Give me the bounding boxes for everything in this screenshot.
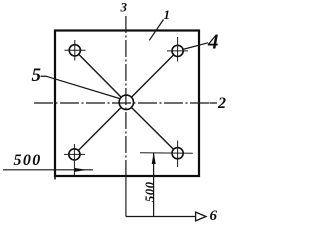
axis 6 horizontal line	[126, 216, 196, 218]
wire TL crosshair	[65, 49, 86, 51]
wire leader 5	[41, 76, 120, 98]
wire diagonal BR to center	[131, 107, 173, 149]
wire diagonal TL to center	[79, 54, 122, 97]
plate outline 1	[55, 31, 199, 177]
wire leader 1	[149, 20, 163, 41]
wire diagonal TR to center	[131, 55, 173, 97]
arrowhead horizontal dim	[75, 168, 87, 172]
arrowhead vertical dim	[152, 152, 156, 164]
svg-text:5: 5	[32, 65, 42, 86]
wire vertical below plate	[125, 176, 127, 217]
svg-text:3: 3	[120, 0, 128, 15]
hole 4 top-right	[172, 45, 183, 56]
hole 5 center	[119, 95, 133, 109]
open arrowhead 6	[196, 212, 206, 221]
wire leader 4	[183, 43, 208, 50]
wire left edge extension	[54, 176, 56, 180]
dimension 500 horizontal line	[3, 169, 93, 171]
svg-text:6: 6	[210, 208, 218, 224]
svg-text:1: 1	[164, 7, 171, 22]
hole top-left	[69, 45, 80, 56]
svg-text:500: 500	[143, 181, 157, 202]
dimension 500 vertical line	[153, 153, 155, 216]
hole bottom-left	[69, 149, 80, 160]
svg-text:2: 2	[217, 95, 226, 112]
node 3 vertical centerline	[125, 16, 127, 176]
hole bottom-right	[172, 148, 183, 159]
svg-text:4: 4	[207, 30, 219, 54]
wire BL crosshair	[64, 153, 85, 155]
wire dash to label 2	[210, 102, 218, 104]
wire TR crosshair	[167, 50, 188, 52]
svg-text:500: 500	[14, 152, 42, 169]
node 2 horizontal centerline	[34, 102, 209, 104]
wire BR crosshair extended left to dimension arrow	[140, 152, 193, 154]
wire diagonal BL to center	[78, 107, 121, 150]
